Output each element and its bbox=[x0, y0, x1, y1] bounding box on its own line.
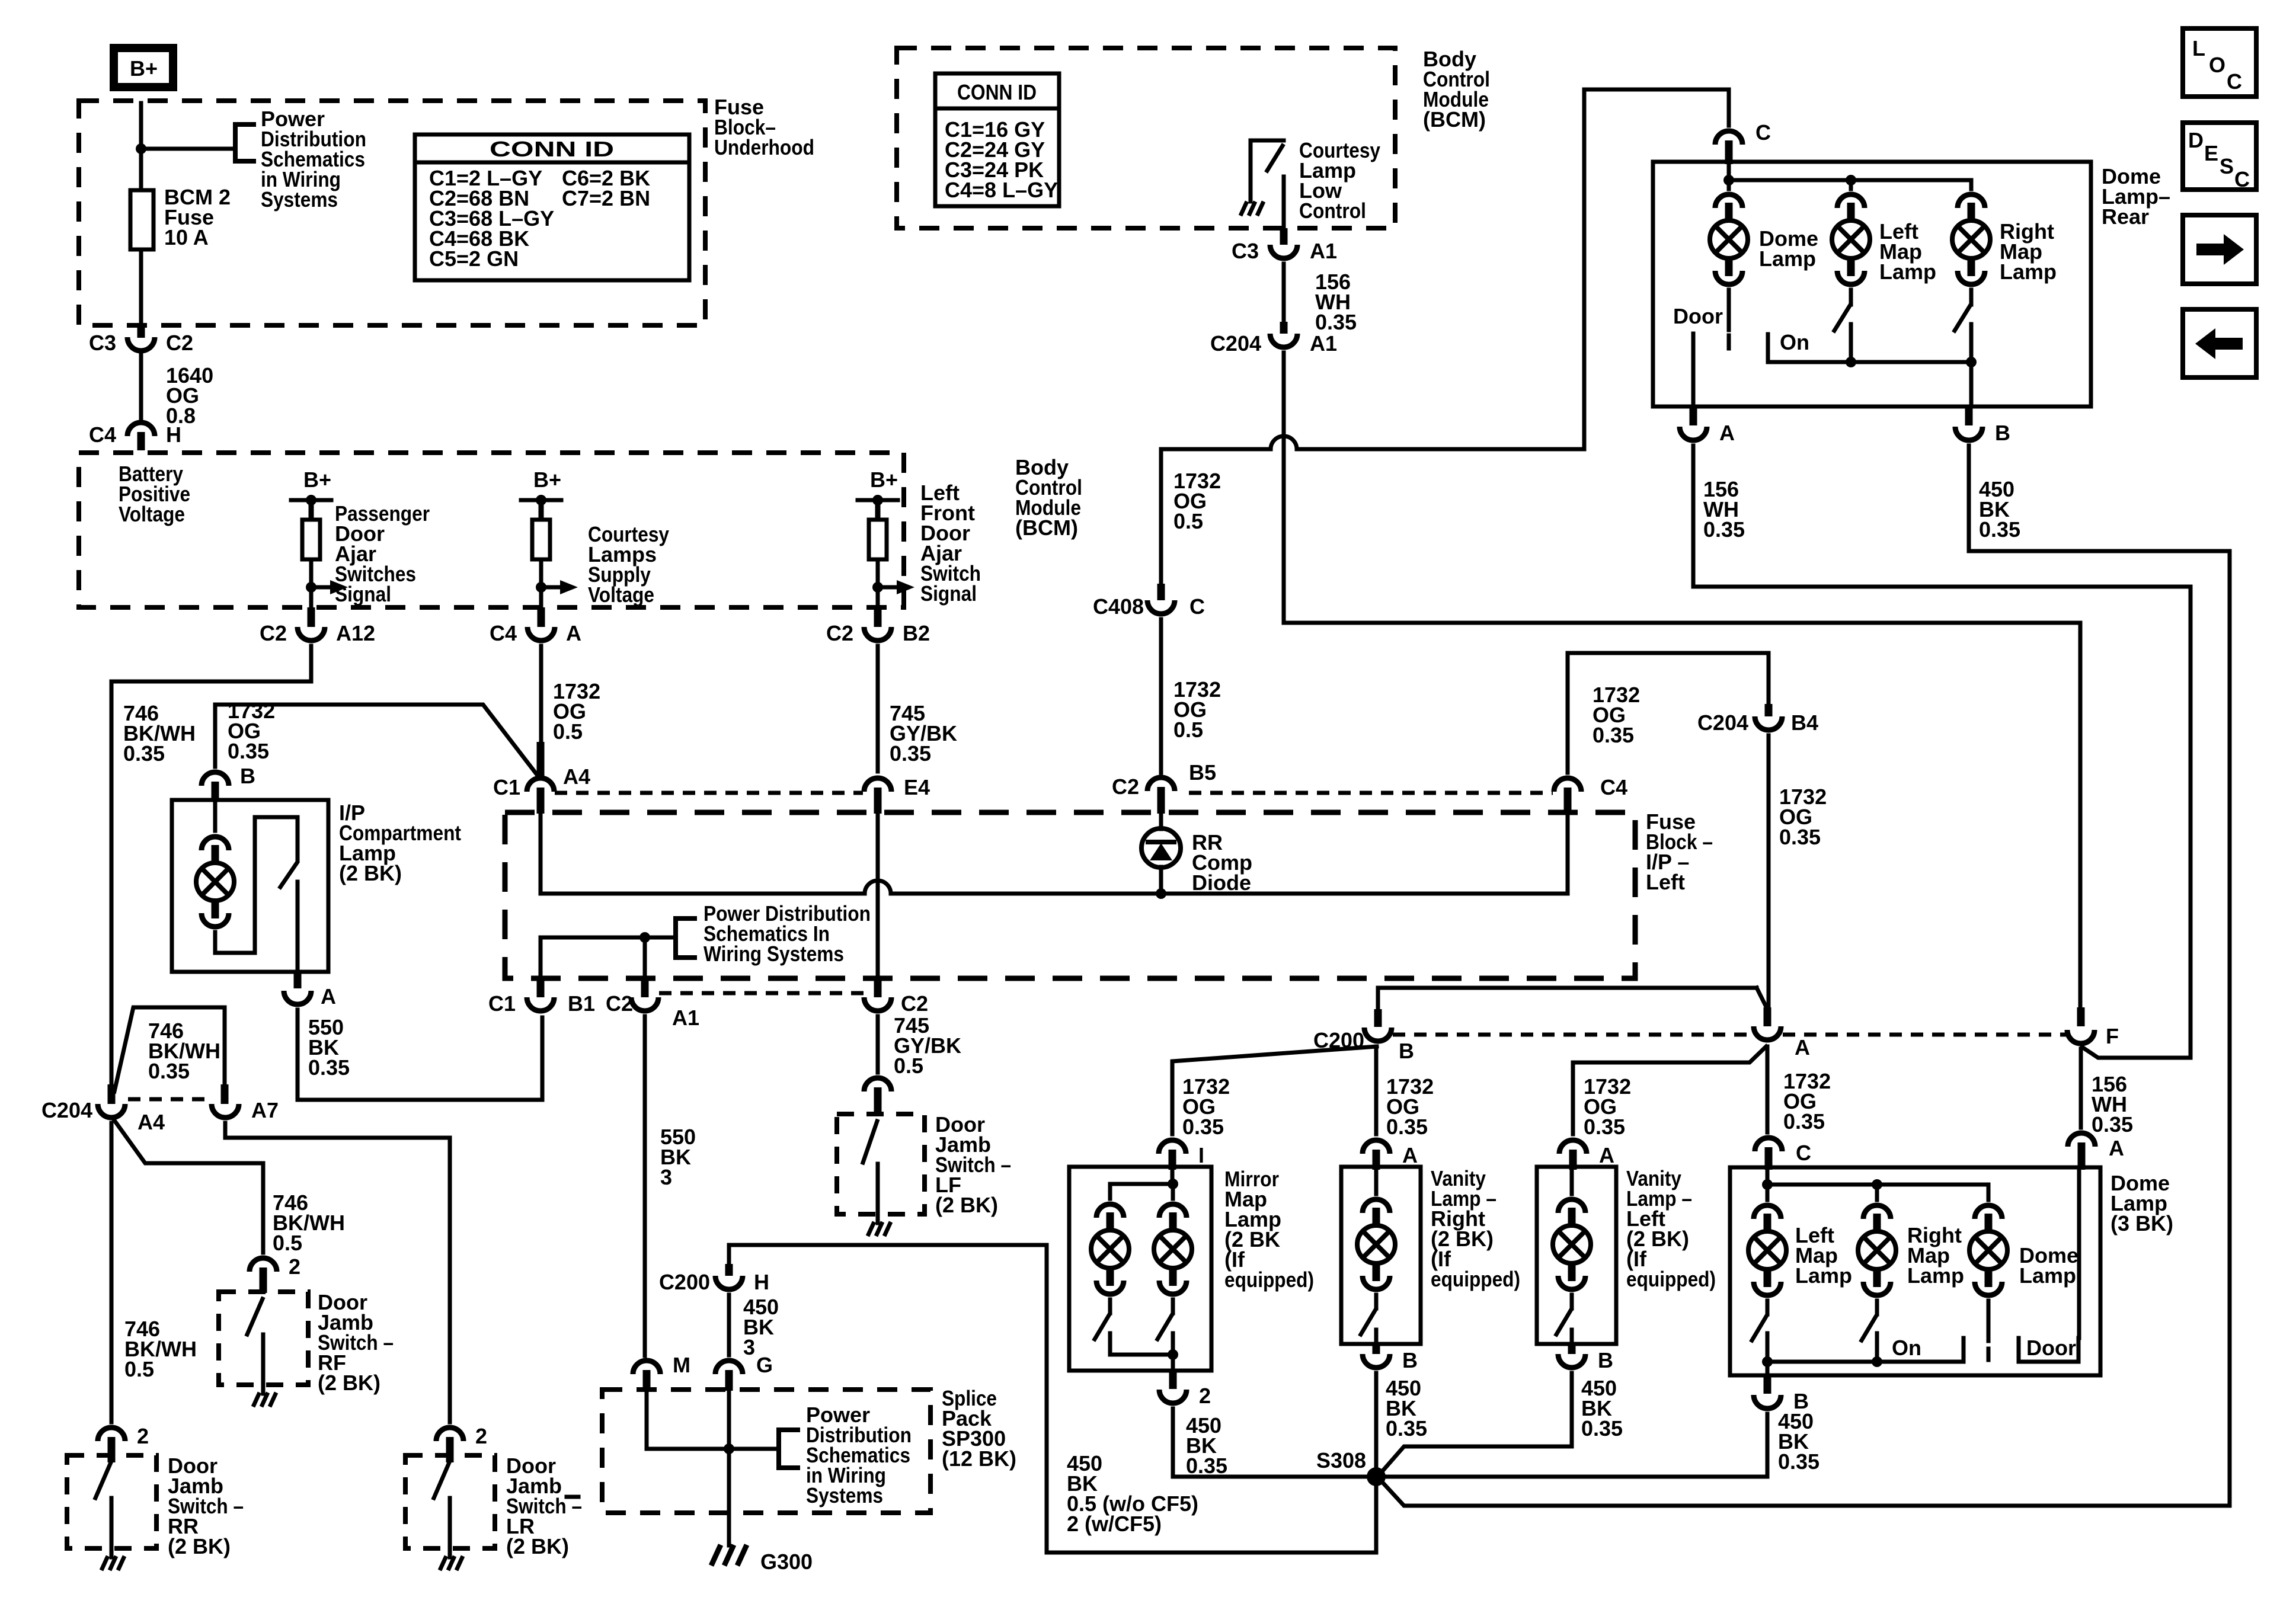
svg-text:Left: Left bbox=[1646, 870, 1685, 894]
wire mirror to S308 bbox=[1173, 1409, 1367, 1477]
lamp IP compartment bbox=[196, 837, 234, 927]
wire S308 down to H return bbox=[1374, 1486, 1379, 1553]
svg-text:(BCM): (BCM) bbox=[1423, 107, 1486, 132]
wire dome rear bus bbox=[1727, 164, 1731, 189]
junction node dome front bus mid bbox=[1872, 1179, 1882, 1190]
svg-text:A: A bbox=[2109, 1136, 2124, 1160]
junction node mirror top bbox=[1168, 1179, 1178, 1189]
dashed box Body Control Module BCM left bbox=[79, 453, 904, 607]
connector LR pin 2 stub bbox=[446, 1437, 454, 1462]
svg-text:B: B bbox=[1399, 1039, 1414, 1063]
dashed box Fuse Block I/P Left bbox=[505, 812, 1635, 978]
svg-text:A4: A4 bbox=[563, 764, 590, 789]
connector C3/A1 stub bbox=[1280, 228, 1288, 245]
dashed box Fuse Block - Underhood bbox=[79, 101, 705, 325]
wire left map front cup tail bbox=[1766, 1301, 1770, 1314]
svg-text:0.35: 0.35 bbox=[1584, 1115, 1625, 1139]
svg-text:B1: B1 bbox=[568, 991, 595, 1016]
wire E4 through box to C2 bbox=[876, 814, 880, 984]
wire fuse block bus bbox=[541, 814, 865, 894]
connector RF pin 2 stub bbox=[260, 1267, 267, 1293]
dotted connector row C204 A4-A7 bbox=[128, 1097, 210, 1102]
svg-text:C: C bbox=[1796, 1141, 1811, 1165]
svg-text:A4: A4 bbox=[137, 1110, 165, 1134]
ground LF bbox=[868, 1222, 891, 1236]
wire 550 BK 3 to M bbox=[643, 1016, 647, 1356]
svg-text:B4: B4 bbox=[1791, 710, 1818, 735]
svg-text:O: O bbox=[2209, 53, 2225, 77]
component box Mirror Map Lamp bbox=[1069, 1167, 1211, 1371]
svg-text:B: B bbox=[1402, 1348, 1418, 1372]
wire mirror top branch bbox=[1110, 1182, 1173, 1186]
svg-text:B+: B+ bbox=[870, 468, 898, 492]
connector C408 stub bbox=[1157, 584, 1165, 600]
svg-text:0.35: 0.35 bbox=[1979, 517, 2020, 542]
wire diode to bus bbox=[1159, 867, 1163, 894]
signal arrow Left bbox=[878, 585, 897, 590]
switch courtesy lamp low control driver bbox=[1251, 140, 1284, 201]
wire H return from S308 bbox=[729, 1245, 1376, 1553]
connector C204/B4 bbox=[1755, 716, 1782, 730]
wire C4/A to C1/A4 bbox=[539, 646, 543, 744]
svg-text:C: C bbox=[1189, 594, 1205, 619]
connector A stub IP bbox=[294, 972, 302, 988]
svg-text:Voltage: Voltage bbox=[119, 502, 185, 526]
dotted connector row B5-C4 bbox=[1189, 791, 1553, 795]
connector B vanity right bbox=[1363, 1354, 1390, 1368]
table CONN ID BCM bbox=[935, 73, 1059, 206]
connector C2/A1 bbox=[631, 997, 658, 1011]
connector C200/M stub bbox=[643, 1370, 651, 1391]
component box Vanity Lamp Left bbox=[1537, 1167, 1616, 1344]
wire C4 up over to C204/B4 bbox=[1568, 653, 1769, 773]
connector B dome front bbox=[1754, 1395, 1781, 1409]
wire On bus front bbox=[1767, 1360, 1964, 1364]
connector C200/H stub bbox=[725, 1264, 733, 1276]
lamp vanity right bbox=[1357, 1199, 1395, 1289]
svg-text:0.35: 0.35 bbox=[1182, 1115, 1224, 1139]
switch blade right map rear bbox=[1955, 306, 1970, 331]
svg-text:B+: B+ bbox=[130, 56, 158, 81]
svg-text:E: E bbox=[2204, 141, 2218, 165]
wire hop bus over E4 bbox=[865, 881, 891, 894]
splice S308 bbox=[1367, 1467, 1386, 1486]
svg-text:D: D bbox=[2188, 128, 2204, 152]
lamp right map rear bbox=[1952, 194, 1990, 284]
switch fixed right map rear bbox=[1969, 324, 1974, 362]
connector RR pin 2 stub bbox=[108, 1437, 116, 1462]
svg-text:equipped): equipped) bbox=[1431, 1267, 1520, 1291]
lamp dome rear bbox=[1710, 194, 1748, 284]
svg-text:0.35: 0.35 bbox=[1593, 723, 1634, 747]
wire courtesy output bbox=[1282, 177, 1286, 228]
resistor element driver Left bbox=[869, 520, 887, 559]
svg-text:C4: C4 bbox=[1600, 775, 1627, 799]
connector C4/H stub bbox=[137, 432, 145, 450]
bracket power distribution reference bbox=[235, 124, 254, 161]
junction node mirror bottom bbox=[1168, 1349, 1178, 1360]
svg-text:H: H bbox=[166, 422, 181, 447]
wire On bus to B bbox=[1969, 362, 1974, 406]
switch fixed left map front bbox=[1766, 1333, 1770, 1362]
wire 746 BK/WH 0.35 from C2/A12 to C204/A4 bbox=[111, 646, 311, 1084]
wire junction to C2/A1 bbox=[643, 937, 647, 979]
wire junction horizontal to power dist bracket bbox=[541, 936, 676, 940]
signal arrow Passenger bbox=[311, 585, 330, 590]
switch blade RF bbox=[247, 1299, 263, 1334]
wire C2/B2 to E4 bbox=[876, 646, 880, 772]
svg-text:2: 2 bbox=[289, 1254, 300, 1279]
switch blade right map front bbox=[1862, 1315, 1876, 1340]
svg-text:C4: C4 bbox=[490, 621, 517, 645]
connector C2/B2 bbox=[864, 627, 891, 641]
dotted connector row C200 B-A bbox=[1393, 1033, 1752, 1037]
switch fixed vanity left bbox=[1570, 1330, 1574, 1344]
svg-text:On: On bbox=[1780, 330, 1809, 354]
wire 156 WH from C204/A1 to F bbox=[1284, 353, 2080, 1007]
svg-text:On: On bbox=[1892, 1336, 1921, 1360]
switch pole IP bbox=[296, 882, 300, 972]
connector stub C2/A12 bbox=[308, 607, 315, 627]
svg-text:equipped): equipped) bbox=[1626, 1267, 1716, 1291]
svg-text:0.35: 0.35 bbox=[1703, 517, 1745, 542]
dotted connector row A1-C2 bbox=[659, 991, 864, 996]
switch pole RF bbox=[261, 1334, 266, 1394]
svg-text:(2 BK): (2 BK) bbox=[506, 1534, 569, 1558]
svg-text:2: 2 bbox=[1199, 1384, 1211, 1408]
svg-text:0.35: 0.35 bbox=[123, 741, 165, 766]
junction node arrow Passenger bbox=[306, 582, 316, 593]
connector LR pin 2 bbox=[436, 1427, 463, 1441]
connector B of IP lamp bbox=[202, 772, 229, 786]
ground RF bbox=[253, 1393, 276, 1407]
wire mirror left cup tail bbox=[1108, 1299, 1112, 1313]
wire vanity left cup tail bbox=[1570, 1295, 1574, 1308]
svg-text:C4=8 L–GY: C4=8 L–GY bbox=[945, 178, 1058, 202]
wire left map to blade bbox=[1849, 290, 1853, 305]
svg-text:F: F bbox=[2106, 1024, 2119, 1048]
wire to power distribution bracket bbox=[141, 147, 235, 151]
connector C200/G bbox=[715, 1361, 743, 1374]
svg-text:(2 BK): (2 BK) bbox=[339, 861, 402, 885]
resistor element driver Courtesy bbox=[532, 520, 550, 559]
connector I mirror bbox=[1159, 1140, 1186, 1154]
wire 550 BK 0.35 to fuse block C1/B1 bbox=[298, 1010, 542, 1100]
svg-text:0.5: 0.5 bbox=[1173, 509, 1203, 533]
connector A dome front stub bbox=[2078, 1142, 2086, 1170]
svg-text:C200: C200 bbox=[659, 1270, 710, 1294]
svg-text:0.35: 0.35 bbox=[1778, 1449, 1819, 1474]
component box Vanity Lamp Right bbox=[1341, 1167, 1421, 1344]
connector A vanity left stub bbox=[1569, 1150, 1577, 1170]
svg-text:Lamp: Lamp bbox=[1795, 1263, 1852, 1288]
svg-text:A: A bbox=[1599, 1143, 1614, 1167]
wire B rear 450 BK to S308 bbox=[1969, 446, 2230, 1506]
svg-text:2: 2 bbox=[137, 1424, 149, 1448]
junction node on B+ wire bbox=[136, 143, 146, 154]
wire B to lamp bbox=[213, 802, 218, 831]
svg-text:B: B bbox=[1995, 421, 2010, 445]
svg-text:C3: C3 bbox=[1232, 239, 1259, 263]
connector C204/A1 stub bbox=[1280, 322, 1288, 334]
svg-text:Door: Door bbox=[2026, 1336, 2076, 1360]
wire B4 down to C200/A bbox=[1767, 735, 1771, 1008]
connector C2 LF stub bbox=[874, 979, 882, 997]
svg-text:0.35: 0.35 bbox=[1581, 1416, 1623, 1441]
junction node bus dome rear bbox=[1723, 175, 1734, 185]
svg-text:C408: C408 bbox=[1093, 594, 1144, 619]
lamp mirror left bbox=[1091, 1204, 1129, 1294]
switch blade left map rear bbox=[1834, 306, 1850, 331]
svg-text:Lamp: Lamp bbox=[1879, 260, 1936, 284]
connector RR pin 2 bbox=[98, 1427, 125, 1441]
wire right map to blade bbox=[1969, 290, 1974, 305]
wire A into vanity right bbox=[1374, 1170, 1379, 1194]
connector C204/A1 bbox=[1270, 334, 1297, 347]
svg-text:I: I bbox=[1198, 1143, 1204, 1167]
svg-text:C1: C1 bbox=[493, 775, 520, 799]
svg-text:0.35: 0.35 bbox=[308, 1055, 350, 1080]
svg-text:equipped): equipped) bbox=[1224, 1267, 1314, 1292]
svg-text:M: M bbox=[673, 1353, 690, 1377]
wire mirror out bbox=[1171, 1355, 1175, 1371]
lamp right map front bbox=[1858, 1205, 1896, 1295]
svg-text:C2: C2 bbox=[901, 991, 928, 1016]
connector C2/B5 stub bbox=[1157, 787, 1165, 814]
wire dome front lamp tail bbox=[1987, 1301, 1991, 1341]
switch pole RR bbox=[110, 1498, 114, 1557]
svg-text:C7=2 BN: C7=2 BN bbox=[562, 186, 650, 210]
connector 2 mirror bbox=[1159, 1390, 1187, 1403]
wire C200/B to vanity right bbox=[1374, 1046, 1379, 1134]
connector C1/B1 bbox=[527, 997, 554, 1011]
component box I/P Compartment Lamp bbox=[172, 800, 328, 972]
connector C200/M bbox=[633, 1361, 660, 1374]
svg-text:2: 2 bbox=[475, 1424, 487, 1448]
dotted connector row A4-E4 bbox=[555, 791, 863, 795]
connector C2/B5 bbox=[1147, 777, 1175, 791]
svg-text:A: A bbox=[566, 621, 581, 645]
connector A dome front bbox=[2068, 1133, 2095, 1147]
wire B out of dome front bbox=[1766, 1362, 1770, 1375]
wire A4 to door jamb switch RF bbox=[113, 1119, 263, 1253]
svg-text:Rear: Rear bbox=[2102, 204, 2149, 229]
svg-text:A: A bbox=[1719, 421, 1735, 445]
svg-text:10 A: 10 A bbox=[164, 225, 209, 249]
svg-text:Lamp: Lamp bbox=[1907, 1263, 1964, 1288]
junction node dome front bus left bbox=[1762, 1179, 1773, 1190]
connector LF top bbox=[864, 1078, 891, 1092]
svg-text:B+: B+ bbox=[533, 468, 561, 492]
bracket power distribution splice pack bbox=[779, 1430, 798, 1468]
switch blade mirror right bbox=[1157, 1314, 1172, 1339]
wire Y-branch to A7 bbox=[114, 1007, 225, 1092]
switch pole LF bbox=[876, 1164, 880, 1223]
connector C200/H bbox=[715, 1276, 743, 1289]
connector A dome rear bbox=[1680, 427, 1707, 440]
junction node On bus front mid bbox=[1872, 1356, 1882, 1367]
connector B vanity left bbox=[1558, 1354, 1585, 1368]
svg-text:Systems: Systems bbox=[261, 187, 338, 212]
component dashed box Door Jamb Switch RF bbox=[219, 1292, 308, 1385]
switch On contact tick rear bbox=[1766, 334, 1770, 362]
wire fuse to connector C3 bbox=[139, 249, 143, 325]
connector C204/A4 stub bbox=[108, 1084, 116, 1104]
wire mirror right cup tail bbox=[1171, 1299, 1175, 1313]
wire dome lamp to switch bbox=[1727, 290, 1731, 330]
wire lamp to switch IP bbox=[215, 817, 298, 953]
wire down to C408 bbox=[1159, 449, 1163, 588]
svg-text:C2: C2 bbox=[166, 331, 193, 355]
connector C1/B1 stub bbox=[537, 979, 545, 997]
svg-text:C2: C2 bbox=[826, 621, 853, 645]
connector C dome front bbox=[1755, 1138, 1782, 1151]
svg-text:Systems: Systems bbox=[806, 1483, 883, 1507]
wire bus to left map cap bbox=[1849, 180, 1853, 189]
connector C4/A bbox=[527, 627, 555, 641]
wire B5 to diode bbox=[1159, 814, 1163, 829]
connector C dome rear stub bbox=[1725, 140, 1733, 164]
dotted connector row C200 A-F bbox=[1783, 1033, 2066, 1037]
switch fixed vanity right bbox=[1374, 1330, 1379, 1344]
connector C204/A7 bbox=[212, 1104, 239, 1118]
wire A4 down to door jamb switch RR bbox=[110, 1123, 114, 1422]
svg-text:0.35: 0.35 bbox=[1779, 825, 1821, 849]
svg-text:S308: S308 bbox=[1316, 1448, 1366, 1473]
connector C1/A4 bbox=[527, 778, 554, 792]
svg-text:3: 3 bbox=[743, 1335, 755, 1359]
wire H to G bbox=[727, 1295, 731, 1355]
svg-text:A7: A7 bbox=[251, 1098, 279, 1122]
svg-text:(2 BK): (2 BK) bbox=[935, 1193, 998, 1217]
wire F to A dome front bbox=[2079, 1049, 2083, 1128]
connector F stub bbox=[2077, 1007, 2085, 1026]
connector C1/A4 upper stub bbox=[537, 742, 545, 779]
svg-text:A: A bbox=[1402, 1143, 1418, 1167]
svg-text:A1: A1 bbox=[672, 1006, 699, 1030]
svg-text:B2: B2 bbox=[903, 621, 930, 645]
legend box arrow right bbox=[2183, 215, 2256, 284]
connector C3/C2 stub bbox=[137, 325, 145, 338]
switch fixed mirror right bbox=[1171, 1333, 1175, 1355]
connector C3/A1 bbox=[1270, 245, 1297, 258]
svg-text:C2: C2 bbox=[260, 621, 287, 645]
connector C2/A12 bbox=[298, 627, 325, 641]
connector C dome front stub bbox=[1765, 1147, 1773, 1170]
wire right map front cup tail bbox=[1875, 1301, 1879, 1314]
ground G300 bbox=[711, 1545, 747, 1566]
wire to C1/B1 bbox=[539, 937, 543, 979]
junction node splice pack bbox=[724, 1443, 734, 1454]
resistor element driver Passenger bbox=[302, 520, 320, 559]
bracket power distribution fuse block bbox=[676, 918, 695, 958]
wire C200/A to vanity left bbox=[1573, 1046, 1766, 1134]
connector C dome rear bbox=[1715, 131, 1742, 145]
wire dome front B to S308 bbox=[1386, 1414, 1767, 1477]
wire 156 WH to C204 bbox=[1282, 264, 1286, 322]
connector A vanity right bbox=[1363, 1140, 1390, 1154]
switch blade LR bbox=[434, 1462, 449, 1498]
connector C204/A4 bbox=[98, 1104, 125, 1118]
svg-text:Diode: Diode bbox=[1192, 870, 1251, 895]
svg-text:0.35: 0.35 bbox=[1186, 1454, 1227, 1478]
svg-text:C: C bbox=[2227, 69, 2242, 94]
svg-text:Voltage: Voltage bbox=[588, 582, 654, 607]
svg-text:A1: A1 bbox=[1310, 239, 1337, 263]
svg-text:0.35: 0.35 bbox=[1386, 1416, 1427, 1441]
svg-text:C5=2 GN: C5=2 GN bbox=[429, 247, 519, 271]
wire C408 net from C to BCM bbox=[1161, 447, 1271, 452]
svg-text:A: A bbox=[1795, 1035, 1810, 1060]
connector C2/A1 stub bbox=[641, 979, 649, 997]
wire diagonal C200/B to mirror lamp bbox=[1172, 1046, 1377, 1134]
dashed box Splice Pack SP300 bbox=[602, 1390, 930, 1513]
svg-text:CONN ID: CONN ID bbox=[490, 137, 614, 161]
wire I into box bbox=[1171, 1170, 1175, 1184]
wire C408 to C2/B5 bbox=[1159, 619, 1163, 773]
svg-text:0.35: 0.35 bbox=[2092, 1112, 2133, 1137]
connector RF pin 2 bbox=[250, 1258, 277, 1272]
connector B dome rear bbox=[1955, 427, 1982, 440]
wire 1640 OG 0.8 bbox=[139, 355, 143, 418]
junction node On bus front left bbox=[1762, 1356, 1773, 1367]
svg-text:0.35: 0.35 bbox=[228, 739, 269, 763]
svg-text:Signal: Signal bbox=[920, 581, 977, 606]
svg-text:B: B bbox=[1598, 1348, 1613, 1372]
wire vanity right B to S308 bbox=[1374, 1373, 1379, 1477]
wire A7 to door jamb switch LR bbox=[225, 1123, 450, 1422]
svg-text:Control: Control bbox=[1299, 199, 1366, 223]
connector C200/A stub bbox=[1764, 1007, 1771, 1026]
svg-text:C204: C204 bbox=[1697, 710, 1748, 735]
junction node arrow Left bbox=[872, 582, 883, 593]
connector I stub bbox=[1169, 1150, 1176, 1170]
svg-text:C4: C4 bbox=[89, 422, 116, 447]
connector C3/C2 bbox=[127, 337, 155, 351]
svg-text:(BCM): (BCM) bbox=[1015, 516, 1078, 540]
svg-text:B: B bbox=[240, 764, 255, 788]
svg-text:C: C bbox=[2234, 167, 2250, 191]
connector C200/G stub bbox=[725, 1370, 733, 1391]
switch blade LF bbox=[863, 1121, 877, 1163]
stray dash mark bbox=[567, 1495, 578, 1499]
connector B stub bbox=[212, 782, 219, 801]
svg-text:C2: C2 bbox=[606, 991, 633, 1016]
ground RR bbox=[101, 1556, 124, 1570]
svg-text:0.35: 0.35 bbox=[890, 741, 931, 766]
wire hop over 156 WH vertical bbox=[1271, 436, 1297, 449]
legend box arrow left bbox=[2183, 309, 2256, 377]
connector C200/A bbox=[1754, 1026, 1781, 1040]
wire Courtesy internal bbox=[539, 559, 543, 607]
connector C4/H bbox=[127, 422, 155, 436]
wire A inside dome front to Door contact bbox=[2077, 1170, 2081, 1338]
svg-text:A1: A1 bbox=[1310, 331, 1337, 356]
lamp mirror right bbox=[1154, 1204, 1192, 1294]
svg-text:0.5: 0.5 bbox=[273, 1231, 302, 1255]
connector C200/F bbox=[2067, 1030, 2094, 1044]
svg-text:3: 3 bbox=[660, 1165, 672, 1189]
connector B rear stub bbox=[1965, 406, 1973, 425]
lamp left map rear bbox=[1832, 194, 1870, 284]
connector C4 fuse block bbox=[1554, 778, 1581, 792]
wire G to ground G300 bbox=[727, 1391, 731, 1545]
fuse BCM 2 10A bbox=[130, 190, 154, 249]
switch blade courtesy bbox=[1267, 146, 1283, 171]
connector E4 bbox=[864, 778, 891, 792]
svg-text:0.35: 0.35 bbox=[1783, 1109, 1825, 1134]
svg-text:0.5: 0.5 bbox=[124, 1357, 154, 1381]
